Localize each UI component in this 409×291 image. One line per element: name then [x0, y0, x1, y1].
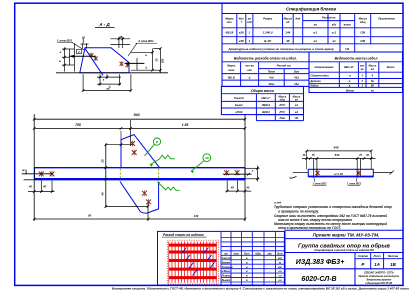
svg-text:45: 45 — [365, 154, 369, 157]
svg-text:48: 48 — [285, 39, 290, 43]
svg-text:530: 530 — [335, 153, 340, 157]
svg-text:кол-во: кол-во — [245, 65, 254, 68]
svg-text:на: на — [248, 18, 252, 21]
green leader 1 — [145, 144, 155, 156]
weld mark — [130, 140, 135, 146]
svg-text:Понт: Понт — [268, 69, 276, 73]
left dimension stack — [64, 47, 66, 71]
weld mark — [224, 170, 229, 176]
svg-text:а-1: а-1 — [332, 31, 337, 35]
svg-text:ЧЬl: ЧЬl — [294, 75, 299, 79]
svg-text:1 85: 1 85 — [182, 123, 189, 127]
svg-text:45: 45 — [230, 186, 235, 190]
svg-text:ИЗД.383 ФБ3+: ИЗД.383 ФБ3+ — [296, 259, 345, 266]
svg-text:Проект марки ТМ. МУ-03-ТМ.: Проект марки ТМ. МУ-03-ТМ. — [313, 233, 380, 238]
bottom dimension line — [34, 218, 245, 220]
section gusset diagonal left — [85, 48, 103, 75]
svg-text:Листов: Листов — [387, 254, 399, 258]
svg-text:АВ: АВ — [204, 156, 209, 160]
svg-text:Ь: Ь — [59, 59, 61, 63]
svg-text:- в: - в — [347, 85, 351, 88]
green mark circle 1 — [153, 138, 160, 145]
svg-text:изд: изд — [247, 20, 252, 24]
svg-text:Статью: Статью — [222, 266, 233, 269]
svg-text:ФБ.В: ФБ.В — [228, 75, 235, 79]
lower dim right pair — [226, 181, 228, 192]
svg-text:25: 25 — [101, 159, 105, 164]
plan plate bottom thick — [308, 176, 373, 178]
svg-text:шт: шт — [247, 69, 252, 72]
svg-text:Расход: Расход — [234, 96, 244, 100]
svg-text:144: 144 — [285, 31, 290, 35]
svg-text:абс: абс — [332, 23, 337, 27]
svg-text:гос: гос — [278, 266, 283, 269]
svg-text:Издел.: Издел. — [311, 84, 320, 88]
svg-text:Масса: Масса — [284, 17, 293, 21]
weld leader line right — [223, 173, 252, 175]
svg-text:ЛУС: ЛУС — [278, 110, 286, 114]
beam bottom extension left — [24, 179, 35, 181]
svg-text:кол: кол — [360, 65, 365, 68]
plan datum line right — [373, 171, 392, 173]
svg-text:спецификация и расход стали на: спецификация и расход стали на изделие В… — [314, 248, 374, 252]
svg-text:40: 40 — [245, 186, 250, 190]
svg-text:Р: Р — [361, 262, 364, 267]
svg-text:1 отв.Ø21: 1 отв.Ø21 — [312, 182, 327, 186]
gusset plate above beam — [121, 135, 160, 168]
svg-text:Лам: Лам — [279, 116, 287, 120]
weld mark — [94, 56, 98, 61]
svg-text:Код: Код — [295, 17, 300, 21]
bolt stem lines — [313, 158, 315, 176]
svg-text:2 отв.Ø21: 2 отв.Ø21 — [137, 39, 154, 43]
svg-text:25: 25 — [155, 58, 159, 62]
svg-text:90: 90 — [88, 213, 92, 217]
weld mark — [316, 170, 320, 175]
svg-text:аЬь: аЬь — [267, 253, 272, 256]
end break marks — [291, 177, 297, 179]
mesh bars horizontal — [169, 244, 217, 247]
svg-text:Чб: Чб — [345, 47, 349, 51]
plan view dimension line 1 — [307, 150, 372, 152]
plan datum line left — [293, 171, 309, 173]
weld mark — [142, 190, 147, 196]
svg-text:Всего: Всего — [346, 88, 355, 92]
svg-text:6020-СЛ-В: 6020-СЛ-В — [301, 276, 336, 283]
svg-text:общ: общ — [360, 20, 366, 24]
svg-text:Ватам: Ватам — [222, 261, 231, 264]
svg-text:Ь: Ь — [146, 65, 148, 69]
svg-text:г.Ленинград ВЛ-35 кВ: г.Ленинград ВЛ-35 кВ — [365, 282, 392, 285]
svg-text:ЬВы: ЬВы — [255, 253, 260, 256]
bottom dimension stack — [99, 74, 101, 85]
svg-text:ЗВ111: ЗВ111 — [262, 110, 271, 114]
svg-text:Примечание: Примечание — [378, 17, 395, 21]
svg-text:а=1 40: а=1 40 — [334, 172, 343, 176]
plan view dimension line 2 — [302, 157, 376, 159]
svg-text:СМ: СМ — [360, 31, 365, 35]
svg-text:НВт-еГ: НВт-еГ — [344, 65, 354, 69]
mass list table right — [309, 52, 403, 93]
svg-text:1А: 1А — [374, 262, 380, 267]
gusset bottom dim — [105, 144, 107, 208]
svg-text:к28: к28 — [239, 31, 244, 35]
svg-text:Арматурные изделия условно не: Арматурные изделия условно не показаны н… — [227, 47, 334, 51]
svg-text:ед: ед — [371, 68, 374, 71]
green weld symbol 2 — [158, 182, 167, 190]
svg-text:1 отв.Ø21: 1 отв.Ø21 — [347, 182, 362, 186]
mesh box frame — [158, 231, 285, 285]
svg-text:Вст: Вст — [244, 253, 250, 256]
svg-text:Стадия: Стадия — [358, 254, 369, 258]
specification table — [222, 3, 403, 52]
svg-text:40: 40 — [101, 192, 105, 197]
svg-text:гЛАб: гЛАб — [235, 110, 242, 114]
svg-text:ьзВыы: ьзВыы — [222, 270, 230, 273]
mesh bars vertical — [168, 242, 170, 283]
svg-text:ед: ед — [286, 20, 290, 24]
svg-text:а1: а1 — [295, 103, 299, 107]
weld arrow line left — [70, 55, 96, 57]
svg-text:Вст: Вст — [277, 253, 283, 256]
svg-text:255: 255 — [161, 58, 165, 64]
svg-text:Ведомость массы издел: Ведомость массы издел — [335, 56, 379, 60]
svg-text:1.240.0: 1.240.0 — [263, 31, 273, 35]
svg-text:аЬ: аЬ — [106, 87, 110, 91]
svg-text:а): а) — [22, 168, 25, 172]
top right dim box — [118, 37, 120, 48]
svg-text:Чб: Чб — [295, 116, 299, 120]
svg-text:Всм: Всм — [294, 69, 299, 73]
svg-text:Расход на: Расход на — [322, 16, 336, 20]
svg-text:СЕВЗАП ЭНЕРГО- СЕТЬ: СЕВЗАП ЭНЕРГО- СЕТЬ — [364, 271, 394, 274]
svg-text:ЛВ111: ЛВ111 — [261, 103, 271, 107]
small top dim left — [81, 43, 83, 48]
title block frame — [285, 230, 403, 285]
plan plate rectangle — [308, 169, 373, 176]
lower dim left pair — [40, 181, 42, 193]
svg-text:СМ: СМ — [360, 39, 365, 43]
svg-text:Расход стали на изделие: Расход стали на изделие — [163, 233, 204, 237]
green mark circle 2 — [203, 154, 211, 162]
top dimension line 2 — [34, 127, 245, 129]
svg-text:Лист: Лист — [373, 254, 382, 258]
svg-text:Трубчатые стержни установить в: Трубчатые стержни установить в отверстия… — [274, 205, 392, 209]
weld leader line left — [22, 173, 53, 175]
svg-text:1 отв.Ø21: 1 отв.Ø21 — [57, 38, 73, 42]
svg-text:элем: элем — [228, 69, 234, 72]
svg-text:кг: кг — [371, 88, 374, 92]
mesh dotted outline — [167, 240, 218, 284]
mesh table grid — [221, 231, 284, 285]
svg-text:уд: уд — [294, 99, 298, 102]
weld arrow line right — [125, 62, 145, 64]
main beam right end — [244, 168, 246, 180]
green leader 2 — [191, 161, 204, 172]
weld mark — [146, 199, 151, 205]
svg-text:ФБ18: ФБ18 — [225, 31, 233, 35]
left extension vertical — [73, 43, 75, 71]
svg-text:В-1Р: В-1Р — [264, 39, 271, 43]
blue hatch marks in mesh — [182, 248, 187, 254]
svg-text:Спецификация блоков: Спецификация блоков — [286, 7, 336, 12]
svg-text:опор в проектном положении по: опор в проектном положении по ГОСТ. — [278, 226, 342, 230]
svg-text:Внутренняя сторона. Обозначени: Внутренняя сторона. Обозначения и ГОСТ-4… — [112, 286, 409, 290]
svg-text:Всего: Всего — [387, 65, 395, 69]
svg-text:а-1: а-1 — [313, 31, 318, 35]
hidden edge dashes — [119, 169, 121, 179]
main beam left end — [34, 168, 36, 180]
svg-text:Масса: Масса — [369, 65, 377, 68]
weld mark — [126, 63, 130, 68]
svg-text:940: 940 — [134, 113, 140, 117]
svg-text:Общая масса: Общая масса — [251, 89, 274, 93]
svg-text:45: 45 — [302, 154, 306, 157]
svg-text:45: 45 — [28, 185, 32, 189]
svg-text:а1: а1 — [295, 110, 299, 114]
svg-text:Выкат: Выкат — [222, 279, 231, 282]
svg-text:Сам ст: Сам ст — [222, 257, 232, 260]
svg-text:- в: - в — [347, 80, 351, 83]
top dimension line 1 — [34, 118, 245, 120]
steel list table left — [222, 52, 309, 86]
svg-text:Наименование: Наименование — [315, 65, 335, 69]
weld mark — [120, 61, 124, 66]
svg-text:Чаl: Чаl — [269, 75, 274, 79]
svg-text:Разрез: Разрез — [263, 17, 273, 21]
svg-text:945: 945 — [333, 146, 338, 150]
svg-text:Балт: Балт — [235, 103, 243, 107]
main beam bottom edge thick — [35, 178, 246, 180]
svg-text:Масса: Масса — [359, 17, 368, 21]
beam height dim right end — [245, 167, 260, 169]
weld mark — [39, 171, 44, 177]
svg-text:Лымаы: Лымаы — [221, 275, 231, 278]
weld mark — [90, 53, 94, 58]
svg-text:Сборочн.един: Сборочн.един — [311, 74, 330, 78]
svg-text:Проект отделение института: Проект отделение института — [358, 275, 399, 278]
weld mark — [50, 171, 55, 177]
gusset plate below beam — [120, 182, 159, 214]
svg-text:ав: ав — [314, 24, 317, 27]
main beam top edge — [35, 167, 246, 169]
svg-text:Ьам: Ьам — [234, 253, 239, 256]
svg-text:всего: всего — [344, 24, 352, 27]
svg-text:а1: а1 — [332, 39, 336, 43]
svg-text:поз.: поз. — [227, 21, 233, 24]
svg-text:Лом: Лом — [268, 82, 276, 86]
svg-text:Детали: Детали — [310, 79, 322, 83]
weld mark — [235, 170, 240, 176]
svg-text:Кол: Кол — [239, 17, 244, 21]
svg-text:во: во — [361, 68, 364, 71]
section bottom datum line — [56, 72, 168, 74]
gusset corner extension — [120, 131, 122, 140]
svg-text:Расход ст: Расход ст — [277, 64, 292, 68]
svg-text:8б: 8б — [371, 84, 374, 88]
svg-text:гос: гос — [278, 257, 283, 260]
section plate outline — [80, 48, 129, 73]
weld mark — [132, 149, 137, 155]
svg-text:Ь: Ь — [249, 75, 251, 79]
svg-text:А - Д: А - Д — [98, 22, 110, 27]
right dimension stack — [136, 58, 138, 70]
weld mark — [357, 170, 361, 175]
svg-text:-- в: -- в — [347, 75, 351, 78]
svg-text:Марка: Марка — [225, 17, 234, 21]
svg-text:755: 755 — [75, 123, 81, 127]
svg-text:и тд: и тд — [274, 200, 281, 204]
svg-text:Ведомость расхода стали на изд: Ведомость расхода стали на издел. — [234, 56, 297, 60]
svg-text:45: 45 — [42, 185, 46, 189]
svg-text:Энергосетьпроект: Энергосетьпроект — [366, 279, 392, 282]
svg-text:Марка: Марка — [227, 64, 236, 68]
svg-text:ЧЬl: ЧЬl — [294, 82, 299, 86]
left end extension line — [33, 114, 35, 221]
green weld symbol 1 — [150, 159, 160, 165]
svg-text:и приварить по контуру.: и приварить по контуру. — [278, 210, 319, 214]
svg-text:1В: 1В — [390, 262, 396, 267]
right end extension line — [244, 114, 246, 221]
svg-text:к48: к48 — [239, 39, 244, 43]
svg-text:140: 140 — [194, 214, 199, 218]
box mark near left slant — [77, 49, 82, 53]
total mass table — [221, 86, 303, 120]
svg-text:общ: общ — [280, 99, 286, 102]
svg-text:ЛУС: ЛУС — [278, 103, 286, 107]
svg-text:НВт-Г: НВт-Г — [261, 96, 270, 100]
svg-text:а1: а1 — [314, 39, 318, 43]
